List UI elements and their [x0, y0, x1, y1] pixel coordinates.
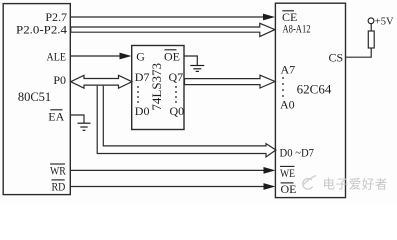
wire EA to ground: [71, 115, 84, 123]
pin label RD (active low): [52, 179, 66, 193]
power terminal +5V: [368, 16, 394, 27]
svg-text:D7: D7: [135, 70, 150, 84]
bus branch P0 to D0~D7 of 62C64: [97, 86, 276, 157]
pin dots Q7..Q0: [175, 86, 177, 103]
pin dots D7..D0: [137, 86, 139, 103]
wire P2.7 to CE with arrow: [71, 14, 276, 21]
pin label OE latch (active low): [164, 50, 180, 64]
wire CS to resistor: [346, 48, 371, 57]
svg-text:80C51: 80C51: [18, 90, 51, 104]
bus Q7-Q0 to A7-A0: [185, 75, 276, 88]
svg-text:P2.0-P2.4: P2.0-P2.4: [16, 22, 67, 36]
svg-text:WR: WR: [50, 164, 66, 178]
svg-text:P0: P0: [53, 73, 66, 87]
IC U1 80C51: [3, 4, 70, 195]
pin label CE (active low): [282, 10, 297, 24]
latch U2 74LS373: [132, 46, 184, 130]
svg-text:电子爱好者: 电子爱好者: [323, 178, 389, 192]
svg-text:ALE: ALE: [47, 50, 67, 64]
svg-text:+5V: +5V: [375, 16, 394, 27]
svg-text:D0 ~D7: D0 ~D7: [280, 146, 315, 160]
pin label OE memory (active low): [281, 182, 297, 196]
wire latch OE to ground: [185, 56, 198, 65]
svg-text:EA: EA: [48, 110, 64, 124]
svg-text:A7: A7: [281, 63, 296, 77]
svg-text:RD: RD: [52, 179, 66, 193]
svg-text:Q0: Q0: [170, 104, 185, 118]
watermark logo: [303, 176, 316, 190]
svg-text:OE: OE: [164, 50, 180, 64]
wire RD to OE with arrow: [71, 183, 276, 190]
pin label WE (active low): [280, 166, 295, 180]
svg-text:A0: A0: [280, 98, 295, 112]
svg-text:A8-A12: A8-A12: [283, 21, 311, 35]
bus P2.0-P2.4 to A8-A12: [71, 23, 275, 36]
svg-text:D0: D0: [135, 104, 150, 118]
svg-text:Q7: Q7: [169, 70, 184, 84]
svg-text:74LS373: 74LS373: [149, 63, 164, 111]
svg-text:CS: CS: [329, 50, 344, 64]
ground (74LS373 OE): [190, 66, 204, 72]
memory U3 62C64: [275, 3, 345, 197]
resistor R1 pull-up: [368, 31, 374, 48]
ground (EA): [78, 123, 91, 130]
svg-text:62C64: 62C64: [297, 82, 332, 97]
pin dots A7..A0: [282, 77, 284, 97]
wire resistor to +5V: [370, 24, 372, 31]
svg-text:OE: OE: [281, 182, 297, 196]
svg-text:WE: WE: [280, 166, 295, 180]
wire WR to WE with arrow: [71, 167, 276, 174]
bus P0 to D7-D0 (bidirectional): [71, 75, 132, 88]
pin label EA (active low): [48, 110, 64, 124]
svg-text:G: G: [136, 50, 145, 64]
wire ALE to G with arrow: [71, 53, 132, 60]
pin label WR (active low): [50, 164, 66, 178]
